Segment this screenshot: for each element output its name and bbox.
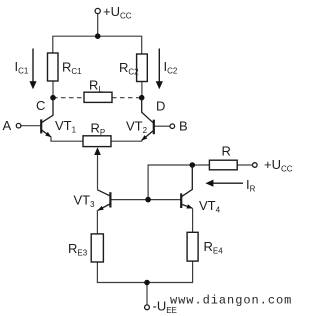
- wire node E to VT4 base: [148, 199, 180, 201]
- svg-text:RP: RP: [91, 121, 106, 138]
- svg-text:VT4: VT4: [199, 198, 221, 215]
- junction VT4 collector node: [190, 162, 196, 168]
- wire terminal A to VT1 base: [21, 125, 41, 127]
- transistor VT2: [141, 98, 154, 141]
- svg-text:+UCC: +UCC: [103, 4, 132, 21]
- terminal A: [16, 123, 21, 128]
- svg-text:D: D: [156, 99, 165, 114]
- svg-text:RC1: RC1: [62, 60, 82, 77]
- svg-text:RL: RL: [89, 78, 103, 95]
- wiper arrow of RP: [94, 147, 101, 155]
- wire base-collector loop of VT4: [148, 165, 192, 200]
- svg-text:RE4: RE4: [204, 239, 224, 256]
- resistor RC2: [137, 54, 148, 82]
- svg-text:RE3: RE3: [68, 241, 88, 258]
- svg-text:C: C: [36, 98, 45, 113]
- terminal B: [170, 124, 175, 129]
- resistor RL: [84, 92, 112, 102]
- svg-text:VT1: VT1: [55, 118, 77, 135]
- svg-text:B: B: [179, 119, 188, 134]
- svg-text:A: A: [3, 118, 12, 133]
- wire VT2 emitter to RP right: [111, 140, 142, 141]
- wire top rail: [53, 36, 142, 54]
- node D junction: [139, 95, 145, 101]
- current arrow IR: [205, 180, 243, 187]
- transistor VT3: [97, 190, 110, 211]
- resistor R: [209, 160, 237, 170]
- svg-text:IC2: IC2: [164, 59, 178, 76]
- wire dashed node C to RL: [53, 97, 84, 99]
- junction top rail: [95, 33, 101, 39]
- wire VT3 base to node E: [111, 199, 148, 201]
- wire VT1 emitter to RP left: [51, 137, 83, 142]
- node C junction: [50, 95, 56, 101]
- resistor RC1: [48, 53, 59, 81]
- current arrow IC1: [29, 49, 36, 90]
- transistor VT4: [181, 165, 193, 209]
- wire resistor R to +Ucc terminal: [237, 164, 252, 166]
- transistor VT1: [41, 98, 53, 138]
- current arrow IC2: [156, 49, 163, 90]
- wire VT4 emitter to RE4: [192, 208, 194, 232]
- svg-text:+UCC: +UCC: [264, 157, 293, 174]
- potentiometer RP: [83, 136, 111, 147]
- wire dashed RL to node D: [112, 97, 142, 99]
- svg-text:R: R: [222, 144, 231, 159]
- wire VT2 base to terminal B: [155, 125, 171, 127]
- svg-text:IR: IR: [246, 177, 256, 194]
- wire VT4 collector node to resistor R: [192, 164, 209, 166]
- junction base node E: [145, 197, 151, 203]
- terminal +Ucc top: [95, 8, 100, 13]
- terminal +Ucc right: [253, 163, 258, 168]
- wire RP wiper to VT3 collector: [97, 153, 99, 190]
- junction bottom rail: [144, 280, 150, 286]
- svg-text:IC1: IC1: [15, 59, 29, 76]
- wire bottom rail: [97, 261, 192, 282]
- wire to -Uee terminal: [146, 283, 148, 305]
- svg-text:www.diangon.com: www.diangon.com: [170, 294, 292, 308]
- wire RC1 bottom to node C: [52, 81, 54, 98]
- terminal -Uee: [145, 305, 150, 310]
- resistor RE4: [187, 232, 198, 261]
- wire RC2 bottom to node D: [141, 82, 143, 98]
- resistor RE3: [91, 234, 103, 262]
- wire +Ucc drop to top rail: [97, 14, 99, 36]
- svg-text:VT2: VT2: [126, 119, 148, 136]
- wire VT3 emitter to RE3: [96, 210, 98, 234]
- svg-text:VT3: VT3: [74, 193, 96, 210]
